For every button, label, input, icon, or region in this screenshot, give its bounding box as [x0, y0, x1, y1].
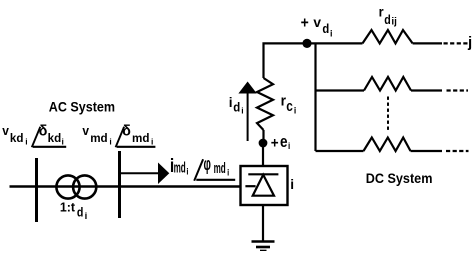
bus bar K (node vkd) [35, 158, 38, 222]
svg-text:+: + [271, 135, 279, 152]
wire branch 3 to dashed continuation [411, 150, 443, 152]
svg-text:DC System: DC System [366, 171, 433, 187]
node label +e_i [271, 133, 290, 152]
wire DC bus vertical [314, 43, 316, 151]
svg-text:i: i [186, 166, 188, 177]
resistor branch 2 zigzag [364, 77, 411, 91]
dashed wire to node j [444, 42, 468, 44]
transformer T1 primary winding [56, 175, 79, 198]
thyristor gate line [245, 185, 255, 187]
wire converter bottom to ground [262, 205, 264, 242]
thyristor triangle [253, 175, 274, 196]
wire converter top to node e [262, 143, 264, 166]
wire current arrow shaft imd [121, 172, 159, 174]
svg-text:md: md [174, 159, 186, 176]
svg-text:r: r [379, 4, 384, 19]
svg-text:1:t: 1:t [60, 201, 76, 215]
resistor branch 3 zigzag [364, 138, 411, 152]
svg-text:c: c [286, 98, 293, 114]
dashed ellipsis between branches [387, 97, 389, 132]
svg-text:φ: φ [204, 154, 212, 175]
svg-text:i: i [109, 137, 111, 147]
svg-text:ij: ij [391, 16, 397, 27]
value label rc_i [281, 92, 297, 116]
resistor rd_ij zigzag [363, 30, 413, 43]
svg-text:v: v [313, 14, 321, 30]
bus bar M (node vmd) [118, 151, 121, 218]
resistor rc_i zigzag [257, 78, 273, 130]
node vd_i dot [302, 39, 311, 48]
svg-text:i: i [227, 167, 229, 178]
wire AC bus horizontal [10, 185, 241, 187]
svg-text:d: d [384, 12, 391, 27]
svg-text:e: e [280, 133, 288, 152]
node label + vd_i [301, 14, 333, 39]
svg-text:md: md [132, 131, 149, 145]
svg-text:md: md [214, 160, 226, 177]
wire top bus node to resistor rd [305, 42, 363, 44]
svg-text:kd: kd [10, 131, 24, 145]
svg-text:i: i [62, 137, 64, 147]
svg-text:δ: δ [39, 123, 48, 139]
svg-text:i: i [290, 177, 294, 192]
ground [252, 242, 275, 251]
current arrow head id [238, 82, 256, 94]
dashed wire branch 3 [446, 150, 469, 152]
node label vmd_i with angle delta_md_i [82, 123, 155, 147]
current label imd_i with angle phi_md_i [170, 154, 235, 181]
value label rd_ij [379, 4, 397, 28]
svg-text:d: d [322, 22, 329, 37]
value label 1:td_i (transformer ratio) [60, 201, 87, 223]
svg-text:kd: kd [48, 131, 62, 145]
current label id_i [229, 95, 244, 116]
label DC System [366, 171, 433, 187]
svg-text:j: j [467, 34, 472, 51]
svg-text:AC System: AC System [49, 99, 115, 115]
wire resistor rc to top corner [264, 43, 306, 78]
svg-text:i: i [25, 137, 27, 147]
wire branch 2 horizontal [316, 89, 365, 91]
current arrow shaft id [247, 92, 249, 141]
svg-text:i: i [294, 105, 296, 116]
wire resistor rd to dashed continuation [413, 42, 442, 44]
svg-text:d: d [233, 100, 240, 115]
svg-text:v: v [82, 123, 89, 138]
label AC System [49, 99, 115, 115]
wire branch 3 horizontal [316, 150, 364, 152]
dashed wire branch 2 [447, 89, 469, 91]
wire branch 2 to dashed continuation [411, 89, 442, 91]
thyristor cathode bar [248, 173, 278, 175]
node e_i dot [259, 139, 268, 148]
current arrow head imd [158, 163, 169, 185]
svg-text:i: i [330, 28, 333, 38]
svg-text:v: v [2, 123, 9, 138]
svg-text:i: i [229, 95, 233, 110]
transformer T1 secondary winding [73, 175, 96, 198]
svg-text:d: d [77, 206, 83, 220]
svg-text:md: md [90, 131, 107, 145]
converter box U_i [241, 166, 288, 205]
svg-text:i: i [85, 211, 88, 222]
node label vkd_i with angle delta_kd_i [2, 123, 66, 147]
svg-text:i: i [241, 105, 243, 115]
wire node e to resistor rc [262, 130, 264, 143]
svg-text:δ: δ [122, 123, 131, 139]
svg-text:+: + [301, 15, 309, 32]
svg-text:i: i [288, 140, 290, 151]
svg-text:i: i [151, 137, 153, 147]
